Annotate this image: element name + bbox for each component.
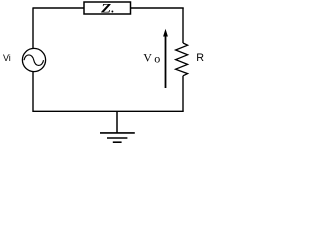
resistor R1 zigzag: [176, 43, 188, 76]
ground stub wire: [116, 111, 118, 133]
wire bottom segment: [33, 110, 184, 112]
output voltage Vo arrow shaft: [165, 34, 167, 88]
ground bar 1: [100, 132, 135, 134]
voltage source V1 sine wave: [24, 55, 44, 65]
wire top-right segment (Z box to output node): [131, 7, 184, 9]
wire top-left segment (source top to Z box): [33, 7, 85, 9]
wire right vertical upper (top node to resistor): [182, 8, 184, 43]
svg-text:i: i: [9, 53, 11, 63]
ground bar 2: [107, 137, 127, 139]
svg-text:R: R: [196, 52, 204, 64]
svg-text:V: V: [143, 50, 152, 64]
output voltage Vo arrowhead: [163, 29, 168, 37]
impedance Z1 box: [84, 2, 131, 14]
ground bar 3: [113, 141, 122, 143]
svg-text:o: o: [154, 52, 160, 66]
impedance Z1 label period dot: [111, 11, 113, 13]
svg-text:Z: Z: [100, 1, 112, 15]
voltage source V1 circle: [22, 48, 45, 71]
wire left vertical (top node to source top): [32, 8, 34, 49]
wire left vertical lower (source bottom to bottom node): [32, 72, 34, 112]
wire right vertical lower (resistor to bottom node): [182, 76, 184, 112]
